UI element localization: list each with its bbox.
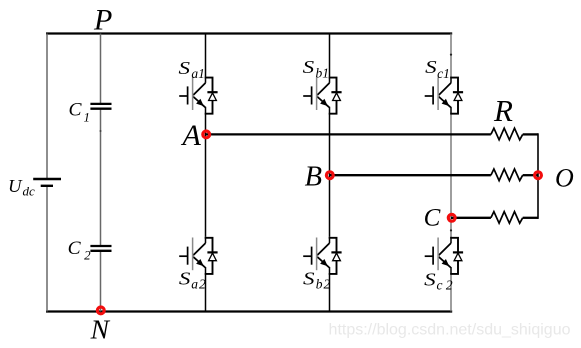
- label Udc: [8, 176, 35, 199]
- label C2: [68, 238, 92, 262]
- svg-text:B: B: [305, 161, 322, 192]
- wire: phase B output to resistor: [330, 174, 491, 176]
- svg-text:c1: c1: [437, 66, 450, 81]
- svg-text:1: 1: [84, 109, 91, 124]
- svg-text:2: 2: [84, 247, 91, 262]
- svg-text:O: O: [555, 164, 574, 193]
- svg-text:https://blog.csdn.net/sdu_shiq: https://blog.csdn.net/sdu_shiqiguo: [329, 322, 571, 339]
- node O: [535, 172, 542, 179]
- label Sc2: [424, 269, 453, 292]
- transistor Sa1: [179, 77, 205, 114]
- svg-text:c 2: c 2: [437, 278, 453, 293]
- svg-text:A: A: [181, 119, 202, 152]
- node B: [326, 172, 333, 179]
- svg-text:S: S: [424, 269, 436, 289]
- diode Db1 (antiparallel with Sb1): [329, 78, 342, 114]
- junction dot on phase-c leg (upper): [450, 54, 452, 56]
- node A: [203, 131, 210, 138]
- battery Udc: [33, 179, 61, 186]
- wire: phase C output to resistor: [451, 217, 491, 219]
- svg-text:a2: a2: [191, 277, 207, 292]
- wire: resistor A to bus O: [523, 133, 538, 135]
- transistor Sb2: [303, 237, 329, 274]
- wire: phase A output to resistor: [206, 133, 491, 135]
- resistor R (phase B): [491, 169, 523, 181]
- label Sc1: [425, 57, 450, 81]
- transistor Sa2: [179, 237, 205, 274]
- diode Dc2 (antiparallel with Sc2): [450, 238, 463, 274]
- svg-text:S: S: [425, 57, 437, 77]
- transistor Sb1: [303, 77, 329, 114]
- svg-text:dc: dc: [23, 183, 36, 198]
- svg-text:C: C: [68, 238, 81, 259]
- label Sb1: [303, 57, 329, 80]
- wire: phase-c leg: [450, 34, 452, 312]
- junction dot on phase-c leg (lower): [450, 229, 452, 231]
- svg-text:S: S: [303, 268, 315, 288]
- svg-text:R: R: [493, 93, 513, 128]
- wire: neutral bus joining resistors at node O: [537, 133, 539, 219]
- diode Dc1 (antiparallel with Sc1): [450, 78, 463, 114]
- svg-text:C: C: [69, 99, 82, 120]
- svg-text:S: S: [303, 57, 315, 77]
- diode Db2 (antiparallel with Sb2): [329, 238, 342, 274]
- wire: left rail (source branch): [46, 34, 48, 312]
- label Sa1: [179, 58, 205, 81]
- svg-text:C: C: [424, 205, 441, 232]
- diode Da2 (antiparallel with Sa2): [205, 238, 218, 274]
- wire: resistor C to bus O: [523, 217, 538, 219]
- svg-text:S: S: [179, 58, 191, 78]
- resistor R (phase C): [491, 212, 523, 224]
- bottom DC bus rail N: [46, 310, 452, 312]
- capacitor C1: [90, 104, 111, 109]
- svg-text:a1: a1: [191, 66, 205, 81]
- junction dot on capacitor branch: [100, 130, 102, 132]
- wire: phase-a leg: [205, 34, 207, 312]
- wire: resistor B to bus O: [523, 174, 538, 176]
- capacitor C2: [90, 246, 111, 251]
- diode Da1 (antiparallel with Sa1): [205, 78, 218, 114]
- resistor R (phase A): [491, 128, 523, 140]
- svg-text:U: U: [8, 176, 23, 196]
- wire: capacitor branch: [100, 34, 102, 312]
- svg-text:P: P: [93, 3, 112, 36]
- svg-text:N: N: [90, 314, 111, 345]
- transistor Sc1: [425, 77, 451, 114]
- svg-text:b1: b1: [316, 66, 330, 81]
- transistor Sc2: [425, 237, 451, 274]
- label C1: [69, 99, 91, 124]
- node N: [97, 307, 104, 314]
- node C: [448, 214, 455, 221]
- wire: phase-b leg: [329, 34, 331, 312]
- top DC bus rail P: [46, 32, 452, 34]
- label Sb2: [303, 268, 331, 291]
- svg-text:b2: b2: [316, 277, 332, 292]
- svg-text:S: S: [179, 268, 191, 288]
- label Sa2: [179, 268, 207, 291]
